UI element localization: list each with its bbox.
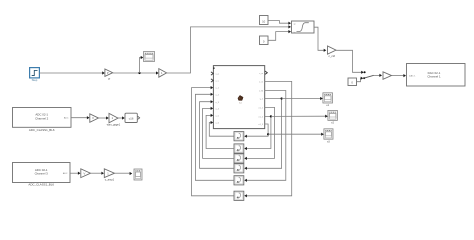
junction to scope e1	[281, 97, 283, 99]
manual switch	[364, 71, 366, 73]
scope ADC2	[134, 169, 142, 180]
delay block b3	[234, 154, 244, 163]
wire loop 5 right side (output to delay b5)	[246, 91, 286, 181]
central block icon	[238, 95, 243, 100]
svg-text:u16: u16	[129, 117, 134, 121]
svg-text:V: V	[83, 171, 85, 175]
gain ADC1 a	[90, 114, 99, 123]
svg-text:10: 10	[262, 19, 266, 23]
constant 0 (switch)	[348, 78, 357, 86]
svg-text:Step: Step	[32, 78, 38, 82]
delay block b1	[234, 132, 244, 141]
constant 0 (lower limit)	[260, 36, 269, 45]
wire gain c_ctrl to switch upper input	[336, 50, 362, 72]
gain DAC scale	[383, 72, 392, 80]
junction to scope e2	[270, 115, 272, 117]
svg-text:V: V	[92, 116, 94, 120]
wire to u16 conversion	[118, 117, 123, 119]
wire gain u_amp1 to scope	[115, 172, 131, 174]
gain 2	[159, 69, 167, 78]
scope e3	[324, 129, 333, 139]
wire gain to DAC block	[392, 75, 405, 77]
wire loop 1 right side (output to delay b1)	[246, 124, 268, 136]
wire constant 10 to saturation up	[268, 21, 289, 24]
svg-text:ADC: ADC	[63, 172, 68, 175]
wire loop 3 right side (output to delay b3)	[246, 107, 275, 158]
svg-text:u_amp1: u_amp1	[105, 178, 115, 182]
delay block b5	[234, 176, 244, 185]
svg-text:Channel 2: Channel 2	[35, 117, 49, 121]
gain P	[105, 69, 113, 76]
data type conversion u16	[125, 113, 137, 122]
wire ADC2 to gain	[70, 172, 79, 174]
junction to scope e3	[267, 133, 269, 135]
wire Step to gain P	[40, 72, 104, 74]
wire loop 2 left side (delay b2 to input)	[206, 115, 234, 148]
constant 10 (upper limit)	[260, 16, 269, 25]
wire gain to gain u_amp1	[91, 172, 103, 174]
wire loop 5 left side (delay b5 to input)	[195, 94, 234, 180]
central block unconnected output port 1	[265, 71, 267, 74]
svg-text:u_v: u_v	[216, 81, 219, 83]
svg-text:Channel 1: Channel 1	[427, 75, 441, 79]
ADC block 1	[13, 108, 72, 128]
svg-text:e_m: e_m	[259, 82, 263, 84]
svg-text:P: P	[107, 71, 109, 75]
central block unconnected input port 1	[211, 72, 213, 75]
gain c_ctrl	[328, 46, 337, 54]
DAC block	[407, 64, 466, 87]
wire loop 4 right side (output to delay b4)	[246, 99, 282, 169]
wire gain P to branch and gain 2	[113, 72, 157, 74]
delay block b2	[234, 144, 244, 153]
wire loop 6 right side (output to delay b6)	[246, 81, 292, 195]
wire constant to switch lower input	[357, 78, 363, 82]
wire switch to gain	[374, 74, 381, 76]
central controller block	[213, 66, 264, 129]
delay block b6	[234, 191, 244, 200]
svg-text:ADC_CLASS1_BL6: ADC_CLASS1_BL6	[29, 128, 55, 132]
gain u_amp1	[104, 169, 114, 178]
central block top-left port marker	[213, 68, 215, 69]
ADC block 2	[13, 163, 71, 183]
gain ADC2 a	[81, 169, 91, 178]
wire gain to gain wan_gage1	[99, 117, 108, 119]
svg-text:c_ctrl: c_ctrl	[328, 54, 335, 58]
scope Scope	[144, 52, 155, 62]
gain wan_gage1	[109, 113, 118, 122]
wire loop 6 left side (delay b6 to input)	[192, 88, 235, 196]
svg-text:wan_gage1: wan_gage1	[107, 122, 121, 126]
wire loop 2 right side (output to delay b2)	[246, 116, 271, 148]
wire saturation to gain c_ctrl	[314, 27, 325, 50]
wire branch up to Scope	[140, 58, 142, 74]
svg-text:P: P	[108, 77, 110, 81]
saturation dynamic block	[292, 21, 315, 33]
source block Step	[30, 68, 40, 78]
svg-text:DAC 1: DAC 1	[409, 75, 416, 78]
svg-text:ADC: ADC	[64, 117, 69, 120]
wire loop 1 left side (delay b1 to input)	[209, 123, 234, 137]
wire loop 3 left side (delay b3 to input)	[203, 108, 234, 158]
wire ADC1 to gain	[71, 117, 88, 119]
central block unconnected input port 2	[211, 79, 213, 82]
scope e1	[323, 93, 333, 103]
svg-text:e_M: e_M	[259, 91, 263, 93]
scope e2	[328, 110, 338, 120]
svg-text:s_m: s_m	[259, 73, 263, 75]
svg-text:Channel 3: Channel 3	[35, 172, 49, 176]
delay block b4	[234, 164, 244, 173]
wire loop 4 left side (delay b4 to input)	[200, 102, 234, 169]
wire gain 2 up to saturation input u	[167, 27, 290, 73]
svg-text:ADC_CLASS1_BL6: ADC_CLASS1_BL6	[28, 183, 54, 187]
wire constant 0 to saturation lo	[268, 32, 289, 41]
